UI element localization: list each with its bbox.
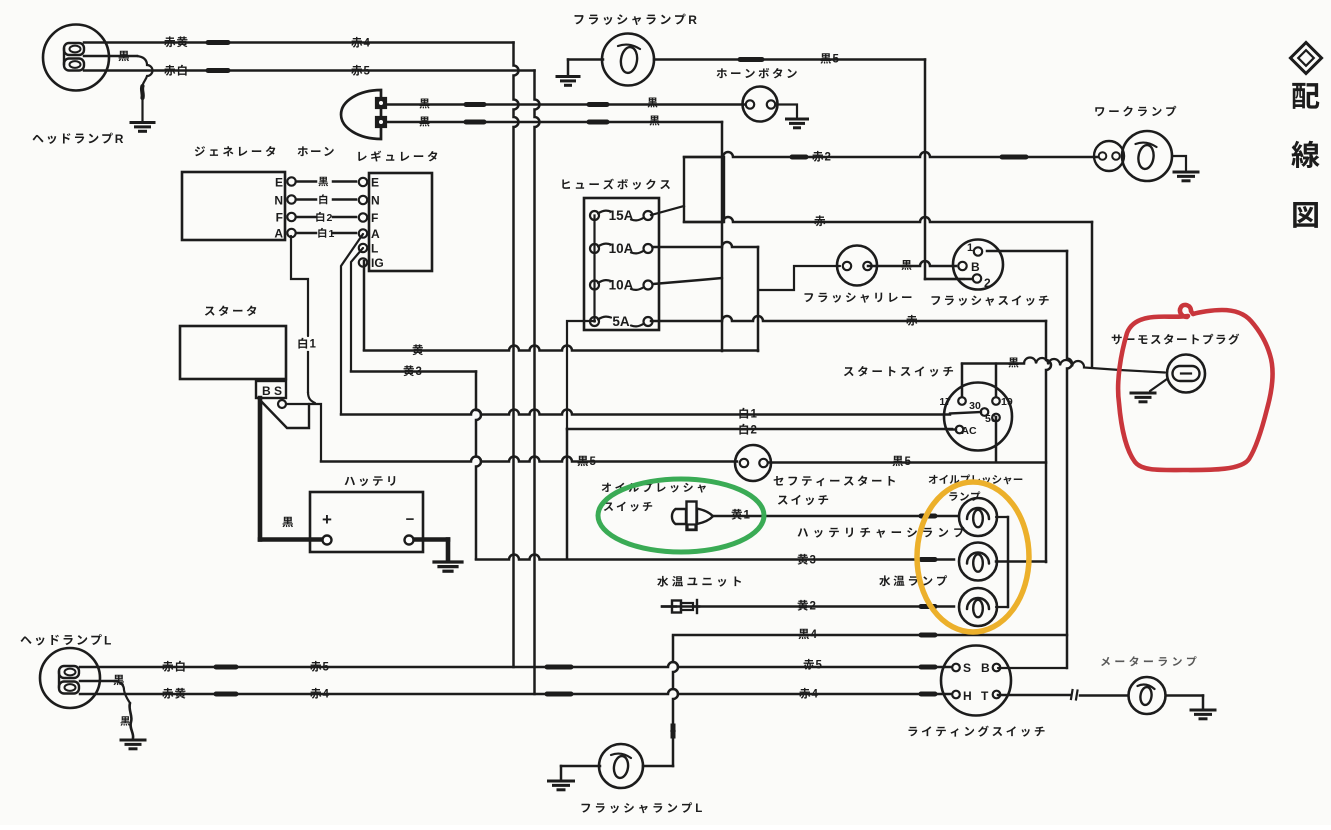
svg-text:R: R (688, 13, 697, 27)
svg-text:1: 1 (310, 339, 317, 351)
svg-text:IG: IG (371, 256, 384, 270)
svg-text:E: E (275, 175, 283, 189)
svg-text:+: + (322, 510, 332, 529)
svg-text:5: 5 (590, 456, 597, 468)
svg-text:1: 1 (329, 228, 335, 240)
svg-text:19: 19 (1001, 396, 1013, 408)
svg-text:5A: 5A (612, 314, 630, 329)
svg-text:3: 3 (810, 555, 816, 567)
svg-text:5: 5 (816, 660, 823, 672)
svg-text:F: F (276, 210, 283, 224)
svg-text:A: A (274, 226, 283, 240)
svg-text:17: 17 (939, 396, 951, 408)
svg-text:10A: 10A (609, 278, 634, 293)
svg-text:5: 5 (364, 66, 371, 78)
svg-text:2: 2 (751, 425, 757, 437)
svg-text:S: S (963, 661, 971, 675)
svg-text:5: 5 (905, 456, 912, 468)
svg-text:30: 30 (969, 400, 981, 412)
svg-text:4: 4 (323, 689, 330, 701)
svg-text:B: B (981, 661, 990, 675)
svg-text:L: L (695, 803, 702, 815)
svg-text:2: 2 (825, 152, 831, 164)
svg-text:N: N (371, 193, 380, 207)
svg-text:L: L (371, 241, 378, 255)
svg-text:4: 4 (811, 629, 818, 641)
svg-text:B S: B S (262, 384, 282, 398)
svg-text:4: 4 (364, 38, 371, 50)
svg-text:10A: 10A (609, 241, 634, 256)
svg-text:N: N (274, 193, 283, 207)
svg-text:15A: 15A (609, 208, 634, 223)
svg-text:50: 50 (985, 413, 997, 425)
svg-text:L: L (104, 633, 111, 647)
svg-text:F: F (371, 211, 378, 225)
svg-text:2: 2 (327, 212, 333, 224)
svg-text:AC: AC (961, 425, 977, 437)
svg-text:5: 5 (833, 54, 840, 66)
svg-text:5: 5 (323, 662, 330, 674)
svg-text:2: 2 (810, 601, 816, 613)
svg-text:H: H (963, 689, 972, 703)
svg-text:E: E (371, 175, 379, 189)
svg-text:1: 1 (967, 242, 973, 254)
svg-text:2: 2 (984, 276, 991, 290)
svg-text:1: 1 (751, 409, 758, 421)
svg-text:4: 4 (812, 689, 819, 701)
svg-text:T: T (981, 689, 989, 703)
svg-text:R: R (115, 132, 124, 146)
svg-text:A: A (371, 227, 380, 241)
svg-text:−: − (406, 511, 415, 528)
svg-text:3: 3 (416, 366, 422, 378)
svg-text:B: B (971, 260, 980, 274)
svg-text:1: 1 (744, 510, 751, 522)
